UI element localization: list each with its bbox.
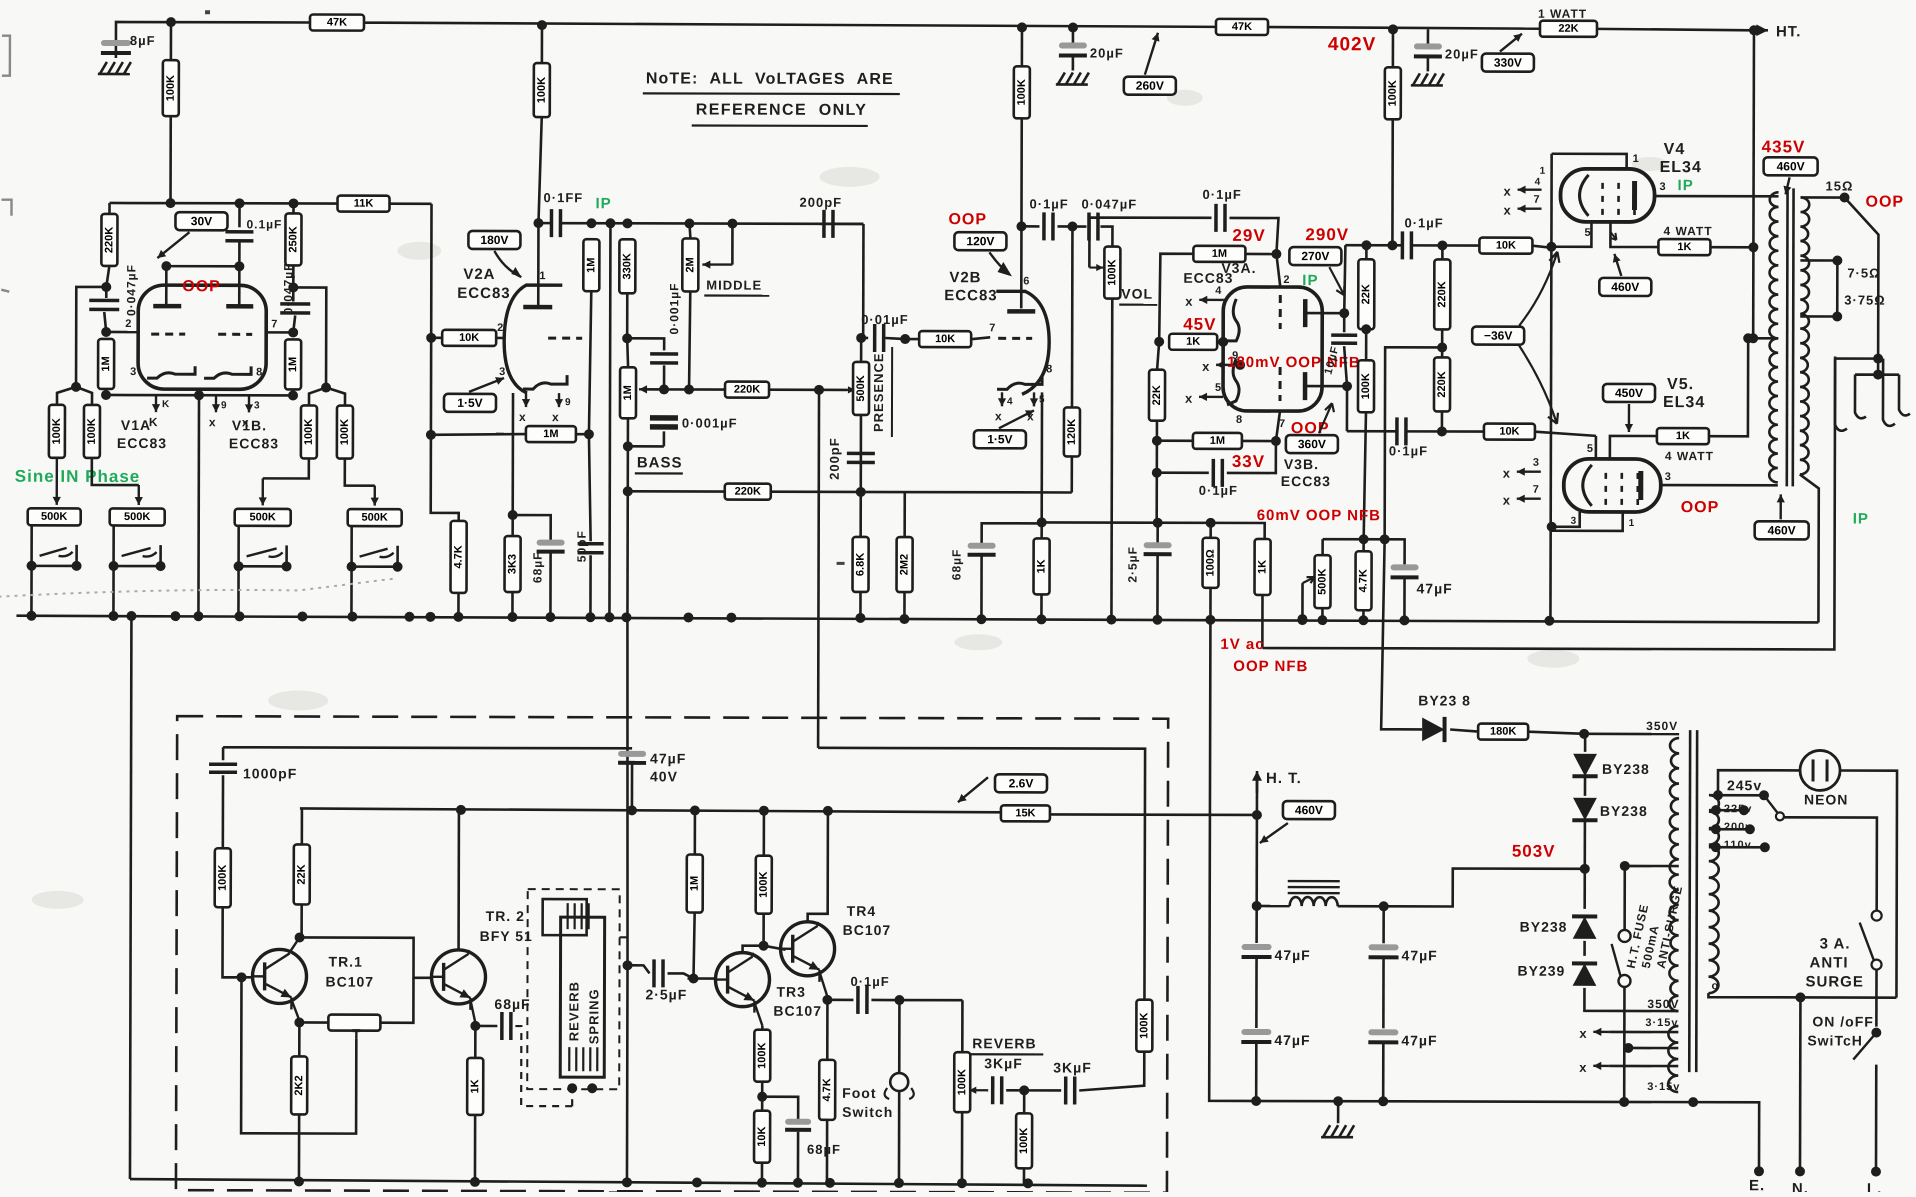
wire V1 left chain [108, 203, 111, 214]
V4 grid feed vertical [1550, 154, 1551, 623]
svg-text:33V: 33V [1232, 452, 1265, 471]
V3B grid pin7 wire [1276, 411, 1280, 441]
svg-text:8µF: 8µF [130, 33, 156, 48]
svg-text:5: 5 [1587, 443, 1594, 455]
capacitor 0.1FF coupling [551, 209, 560, 237]
V1 heater pins [152, 395, 160, 412]
svg-text:x: x [1579, 1026, 1587, 1041]
svg-text:100Ω: 100Ω [1205, 549, 1217, 576]
svg-text:3: 3 [254, 400, 261, 411]
wire input2 to pot2 [92, 458, 139, 485]
wiper arrow reverb level [969, 1087, 987, 1094]
resistor 2K2 TR1 emitter [298, 1022, 301, 1056]
svg-text:6.8K: 6.8K [855, 553, 867, 576]
svg-text:1K: 1K [1677, 241, 1691, 253]
capacitor 68uF TR3 emitter bypass [762, 1097, 798, 1120]
svg-text:180V: 180V [480, 233, 508, 247]
TR4 emitter node [819, 972, 827, 997]
wire V3A anode up to row [1344, 245, 1345, 313]
svg-text:45V: 45V [1183, 315, 1216, 334]
svg-text:3KµF: 3KµF [1053, 1059, 1092, 1075]
capacitor 50pF [578, 544, 604, 553]
resistor 100K reverb input [215, 848, 231, 907]
svg-text:4: 4 [1007, 396, 1014, 407]
potentiometer 1M BASS [627, 366, 630, 369]
mains switch contacts [1872, 911, 1882, 921]
dashed enclosure reverb section [176, 716, 1168, 1193]
junction dots treble row [586, 218, 596, 228]
voltage box 460V V5 anode [1755, 521, 1809, 539]
svg-text:0·001µF: 0·001µF [682, 415, 738, 430]
neon lamp [1800, 750, 1840, 790]
capacitor 0.047uF V1A grid [89, 300, 119, 309]
TR3 emitter chain [754, 1003, 762, 1026]
V4 heater arrows [1518, 186, 1542, 194]
svg-text:120V: 120V [966, 234, 994, 248]
svg-text:1M: 1M [689, 876, 701, 891]
svg-text:47µF: 47µF [1416, 580, 1452, 596]
svg-text:100K: 100K [1016, 79, 1028, 105]
wire V1 right input bracket [288, 282, 298, 292]
ground 8uF [98, 62, 131, 74]
wire V1 right chain [292, 203, 295, 213]
svg-text:120K: 120K [1066, 419, 1078, 445]
svg-text:VOL: VOL [1121, 286, 1153, 302]
voltage box 330V with arrow [1482, 54, 1534, 72]
capacitor 68uF reverb drive [475, 1025, 497, 1028]
svg-text:x: x [519, 410, 527, 424]
svg-text:BFY 51: BFY 51 [480, 928, 533, 944]
svg-text:22K: 22K [296, 864, 308, 884]
svg-text:4 WATT: 4 WATT [1663, 224, 1712, 238]
svg-text:100K: 100K [1387, 80, 1399, 106]
transformer OPT secondary winding [1800, 197, 1809, 474]
svg-text:500K: 500K [41, 511, 67, 523]
svg-text:x: x [1185, 294, 1193, 309]
svg-text:BC107: BC107 [773, 1003, 822, 1019]
V3A grid dashes inside [1279, 295, 1282, 329]
svg-text:H. T.: H. T. [1266, 770, 1302, 787]
svg-text:1M: 1M [585, 258, 597, 273]
svg-text:Switch: Switch [842, 1104, 893, 1120]
reverb spring tank [560, 917, 604, 1077]
diode BY238 rect 1 (down) [1584, 734, 1587, 752]
svg-text:0·001µF: 0·001µF [667, 282, 681, 334]
transistor TR2 BFY51 [431, 950, 485, 1010]
svg-text:0·1µF: 0·1µF [1203, 187, 1242, 202]
svg-text:47µF: 47µF [1274, 1032, 1310, 1048]
transformer OPT primary winding [1769, 192, 1778, 338]
svg-text:68µF: 68µF [807, 1142, 841, 1157]
resistor 1M TR3 bias [694, 811, 697, 855]
primary taps [1709, 794, 1764, 797]
transformer PT heater winding [1668, 1026, 1678, 1092]
svg-text:100K: 100K [536, 77, 548, 103]
on-off switch blade [1871, 1028, 1881, 1038]
resistor 100K TR3 collector [763, 811, 766, 856]
svg-text:100K: 100K [758, 871, 770, 897]
svg-text:3: 3 [1533, 457, 1540, 469]
wire TR3 collector node [743, 946, 764, 953]
svg-text:V3B.: V3B. [1284, 456, 1319, 472]
svg-text:7·5Ω: 7·5Ω [1847, 266, 1880, 281]
svg-text:22K: 22K [1360, 284, 1372, 304]
wire bias feed from 220K junction [1381, 539, 1422, 729]
resistor 100K PI supply [1392, 29, 1395, 67]
wire HT top bus [116, 22, 310, 45]
HT arrow label [1745, 24, 1768, 36]
V2B anode [1016, 221, 1026, 231]
svg-text:1M: 1M [1210, 435, 1225, 447]
resistor 220K bias upper [1434, 259, 1450, 329]
resistor 1K V2B cathode [1033, 538, 1049, 594]
wire rect bottom to secondary bottom [1584, 988, 1678, 1011]
resistor 4.7K [451, 521, 467, 593]
V4 top frame pin1 [1552, 154, 1627, 169]
potentiometer 100K reverb level [954, 1052, 970, 1112]
svg-text:2: 2 [1283, 274, 1290, 286]
svg-text:100K: 100K [756, 1042, 768, 1068]
transistor TR3 BC107 [715, 953, 769, 1013]
svg-text:3: 3 [1665, 471, 1672, 483]
svg-text:3: 3 [130, 366, 137, 378]
svg-text:100K: 100K [1360, 373, 1372, 399]
resistor 1M grid-row [496, 433, 504, 436]
voltage box 1.5V arrow V2A [444, 394, 496, 412]
voltage box 2.6V arrow [995, 774, 1047, 792]
svg-text:ECC83: ECC83 [1281, 473, 1331, 489]
svg-text:1M: 1M [100, 356, 112, 371]
capacitor 0.1uF to V3 grid [1216, 204, 1225, 232]
svg-text:HT.: HT. [1776, 23, 1802, 40]
svg-text:BY238: BY238 [1600, 803, 1648, 819]
resistor 1M V1A grid leak [101, 327, 111, 337]
wire reverb out to 100K pullup [1079, 1052, 1144, 1091]
dashed wire spring output [620, 936, 628, 938]
svg-text:2M: 2M [684, 257, 696, 272]
svg-text:20µF: 20µF [1090, 46, 1124, 61]
speaker jack outer [1835, 358, 1895, 430]
capacitor 0.047uF V1B grid [280, 304, 310, 313]
svg-text:1V ac: 1V ac [1220, 636, 1264, 653]
svg-text:220K: 220K [735, 486, 761, 498]
transformer PT core [1688, 730, 1691, 1072]
wire V2A cathode chain [511, 393, 514, 536]
tube V1 ECC83 envelope [138, 285, 266, 389]
svg-text:402V: 402V [1328, 34, 1376, 55]
capacitor 2.5uF reverb return [654, 959, 663, 987]
resistor 1K V5 screen 4WATT [1610, 436, 1657, 459]
tube V4 EL34 [1560, 169, 1654, 222]
svg-text:2M2: 2M2 [899, 554, 911, 575]
svg-text:1000pF: 1000pF [243, 765, 297, 781]
svg-text:10K: 10K [459, 332, 479, 344]
capacitor 0.1uF to V4 [1402, 231, 1411, 259]
svg-text:1K: 1K [1676, 430, 1690, 442]
svg-text:2.6V: 2.6V [1009, 776, 1034, 790]
resistor 220K bias lower [1434, 357, 1450, 411]
svg-text:BC107: BC107 [843, 922, 892, 938]
voltage box 260V with arrow [1124, 77, 1176, 95]
wire VOL bottom [1110, 299, 1113, 619]
capacitor 47uF PSU 1a [1255, 906, 1258, 943]
svg-text:100K: 100K [303, 419, 315, 445]
svg-text:PRESENCE: PRESENCE [871, 352, 886, 432]
svg-text:V2B: V2B [949, 269, 981, 286]
capacitor 200pF presence lower [847, 453, 875, 462]
potentiometer 500K input [235, 509, 291, 526]
resistor 100R NFB [1203, 538, 1219, 588]
resistor 4.7K TR4 emitter [826, 997, 829, 1060]
wire switch to mains switch [1784, 817, 1877, 910]
resistor 1M vertical (treble slope) [583, 239, 599, 291]
svg-text:330V: 330V [1494, 56, 1522, 70]
svg-text:0·047µF: 0·047µF [1082, 197, 1138, 212]
V1A cathode [147, 366, 195, 378]
dashed outline spring unit [527, 889, 620, 1089]
svg-text:47µF: 47µF [650, 750, 686, 766]
voltage box 30V with arrow [175, 212, 227, 230]
transformer PT primary winding [1708, 795, 1718, 993]
svg-text:V1B.: V1B. [232, 417, 267, 433]
V1B anode [238, 266, 241, 306]
capacitor 0.1uF V2B out [1021, 225, 1039, 228]
svg-text:ECC83: ECC83 [229, 435, 279, 451]
svg-text:435V: 435V [1762, 137, 1806, 156]
svg-text:ECC83: ECC83 [944, 287, 997, 304]
svg-text:3·15v: 3·15v [1645, 1017, 1678, 1029]
resistor 6.8K [859, 492, 862, 537]
junction dots top bus [166, 17, 176, 27]
svg-text:OOP NFB: OOP NFB [1233, 658, 1308, 675]
svg-text:8: 8 [256, 366, 263, 378]
svg-text:500K: 500K [250, 511, 276, 523]
svg-text:0·047µF: 0·047µF [124, 264, 138, 316]
wire input3 to pot3 [263, 458, 309, 478]
resistor 15K reverb supply [1001, 805, 1050, 821]
wire footswitch node to 100K pot [961, 1000, 964, 1052]
svg-text:460V: 460V [1611, 280, 1639, 294]
svg-text:ANTI: ANTI [1810, 954, 1849, 971]
V2B grid dashes [998, 337, 1032, 340]
svg-text:3·15v: 3·15v [1647, 1081, 1680, 1093]
svg-text:TR.1: TR.1 [329, 954, 363, 970]
wire V1 left input bracket [101, 282, 111, 292]
resistor 11K [337, 196, 389, 212]
resistor 100K TR3 emitter [761, 1026, 764, 1030]
resistor 100K input 2 [76, 387, 92, 405]
wire NFB line from output [1262, 355, 1835, 649]
svg-text:K: K [162, 399, 170, 410]
svg-text:x: x [1579, 1060, 1587, 1075]
svg-text:220K: 220K [734, 384, 760, 396]
wire primary bottom [1708, 993, 1896, 997]
V2B heater pins [998, 392, 1006, 406]
wire TR2 emitter node [470, 1000, 475, 1023]
faint pencil mark [0, 578, 394, 598]
svg-text:1: 1 [539, 270, 546, 282]
svg-text:460V: 460V [1777, 159, 1805, 173]
voltage box 450V V5 screen [1603, 384, 1655, 402]
wire V1 cathode bus [106, 394, 293, 397]
capacitor 200pF treble [819, 223, 863, 226]
V2A grid dashes [548, 337, 582, 340]
svg-text:450V: 450V [1615, 386, 1643, 400]
wire cathode NFB row [1042, 522, 1265, 539]
svg-text:0·1FF: 0·1FF [544, 190, 584, 205]
svg-text:110v: 110v [1724, 839, 1752, 851]
wire rectifier top to secondary [1584, 733, 1679, 736]
svg-text:IP: IP [1302, 272, 1318, 289]
resistor 1M V3B grid [1193, 433, 1242, 449]
svg-text:503V: 503V [1512, 842, 1556, 861]
svg-text:3: 3 [1571, 516, 1578, 527]
resistor 1K V3 cathode [1154, 337, 1164, 347]
potentiometer 500K PRESENCE [853, 362, 869, 415]
capacitor 47uF PSU 1b [1241, 1029, 1271, 1042]
capacitor 1000pF [222, 747, 225, 760]
svg-text:V1A: V1A [121, 417, 151, 433]
resistor 1K V4 screen 4WATT [1658, 239, 1710, 255]
wiper arrow PRESENCE [847, 386, 855, 393]
speaker jack inner [1855, 375, 1910, 419]
junction dots reverb ground [294, 1176, 304, 1186]
svg-text:100K: 100K [956, 1069, 968, 1095]
wire mix to send row [817, 748, 1145, 1000]
resistor 22K PI load A [1358, 259, 1374, 329]
wire TR1 collector node [295, 932, 305, 942]
wire neon right to primary bottom [1839, 771, 1897, 998]
capacitor 68uF tone [982, 523, 1042, 544]
svg-text:ON /oFF: ON /oFF [1812, 1013, 1873, 1029]
svg-text:500K: 500K [1316, 568, 1328, 594]
capacitor 0.1uF NFB to V3B grid [1157, 471, 1209, 474]
svg-text:BY239: BY239 [1517, 963, 1565, 979]
resistor 100K mix lower [1023, 1090, 1026, 1113]
svg-text:x: x [1504, 184, 1512, 199]
svg-text:5: 5 [1584, 227, 1591, 239]
svg-text:40V: 40V [650, 768, 678, 784]
transformer PT secondary winding [1669, 738, 1679, 1011]
V3B anode bar [1303, 372, 1308, 400]
diode BY238 bias [1422, 717, 1444, 742]
voltage box 360V [1286, 435, 1338, 453]
svg-text:IP: IP [595, 195, 611, 212]
transistor TR4 BC107 [780, 922, 834, 982]
svg-text:1·5V: 1·5V [457, 396, 482, 410]
resistor 100K PI load B [1358, 360, 1374, 412]
wire neon left to 245V tap [1718, 770, 1800, 795]
svg-text:MIDDLE: MIDDLE [706, 278, 762, 293]
resistor 220K V1A [101, 214, 117, 266]
resistor 220K lower [725, 484, 771, 500]
trimmer TR1 feedback [299, 1021, 328, 1024]
wire 330K to 0.001uF cap1 [622, 333, 632, 343]
svg-text:360V: 360V [1298, 437, 1326, 451]
V3A anode bar [1303, 299, 1308, 327]
capacitor 0.1uF reverb out [827, 999, 853, 1002]
wire TR1 emitter to bias row [291, 999, 299, 1020]
svg-text:68µF: 68µF [531, 551, 545, 583]
svg-text:TR3: TR3 [776, 984, 805, 1000]
resistor 220K bass row [725, 382, 769, 398]
svg-text:220K: 220K [103, 227, 115, 253]
V1A anode [165, 266, 168, 306]
svg-text:TR4: TR4 [847, 903, 876, 919]
resistor 120K grid leak V3 [1071, 226, 1074, 407]
svg-text:7: 7 [1533, 484, 1540, 496]
svg-text:245v: 245v [1727, 777, 1762, 793]
wire spring output to 2.5uF [623, 960, 633, 970]
svg-text:350V: 350V [1647, 997, 1679, 1011]
svg-text:NEON: NEON [1804, 791, 1848, 807]
terminals E N L [1754, 1166, 1764, 1176]
svg-text:V4: V4 [1664, 141, 1686, 158]
svg-text:V5.: V5. [1667, 376, 1694, 393]
wire TR3 base [688, 973, 698, 983]
svg-text:1K: 1K [1186, 336, 1200, 348]
svg-text:2·5µF: 2·5µF [1126, 546, 1140, 583]
svg-text:3KµF: 3KµF [984, 1055, 1023, 1071]
svg-text:BASS: BASS [637, 454, 683, 471]
svg-text:1: 1 [1629, 518, 1636, 529]
capacitor 47uF PSU 2a [1382, 906, 1385, 943]
resistor 100K VOL pot [1104, 247, 1120, 299]
potentiometer 500K input [348, 509, 402, 526]
wire input1 to pot1 [53, 458, 61, 505]
svg-text:2: 2 [497, 322, 504, 334]
resistor 1K NFB [1254, 539, 1270, 595]
tube V3 ECC83 envelope [1223, 287, 1322, 411]
switch arm 245V [1764, 795, 1778, 813]
svg-text:2·5µF: 2·5µF [645, 986, 687, 1002]
svg-text:x: x [209, 415, 217, 429]
svg-text:1M: 1M [1212, 248, 1227, 260]
wire send tap from tone stack [817, 390, 821, 748]
resistor 22K V3 tail [1157, 342, 1159, 370]
V3B grid dashes inside [1279, 367, 1282, 401]
junction dots ground bus [26, 611, 36, 621]
diode BY238 rect 3 (up) [1572, 916, 1597, 938]
wire bass row [647, 388, 725, 391]
svg-text:OOP: OOP [182, 278, 221, 295]
svg-text:EL34: EL34 [1660, 159, 1702, 176]
capacitor 0.1uF V1B anode [238, 203, 241, 227]
svg-text:260V: 260V [1136, 79, 1164, 93]
svg-text:100K: 100K [86, 418, 98, 444]
svg-text:10K: 10K [756, 1127, 768, 1147]
svg-text:1: 1 [1633, 153, 1640, 165]
svg-text:22K: 22K [1151, 385, 1163, 405]
svg-text:47K: 47K [327, 17, 347, 29]
svg-text:60mV OOP NFB: 60mV OOP NFB [1257, 507, 1381, 524]
wire 11K row [110, 202, 338, 205]
capacitor 8uF input filter [115, 44, 118, 58]
svg-text:68µF: 68µF [494, 996, 530, 1012]
wire 200pF right corner down to presence [862, 224, 865, 338]
tube V2A ECC83 envelope [504, 285, 562, 393]
svg-text:4 WATT: 4 WATT [1665, 449, 1714, 463]
wire bias tap to filter [1385, 347, 1443, 539]
wire input4 to pot4 [345, 459, 375, 486]
resistor 2M2 [903, 492, 906, 537]
svg-text:15Ω: 15Ω [1826, 178, 1854, 193]
svg-text:4: 4 [1535, 177, 1542, 188]
capacitor 47uF bias [1391, 564, 1419, 577]
svg-text:x: x [1503, 466, 1511, 481]
wire 220K lower to bus drops [626, 446, 629, 617]
resistor 1M V1B grid leak [288, 327, 298, 337]
